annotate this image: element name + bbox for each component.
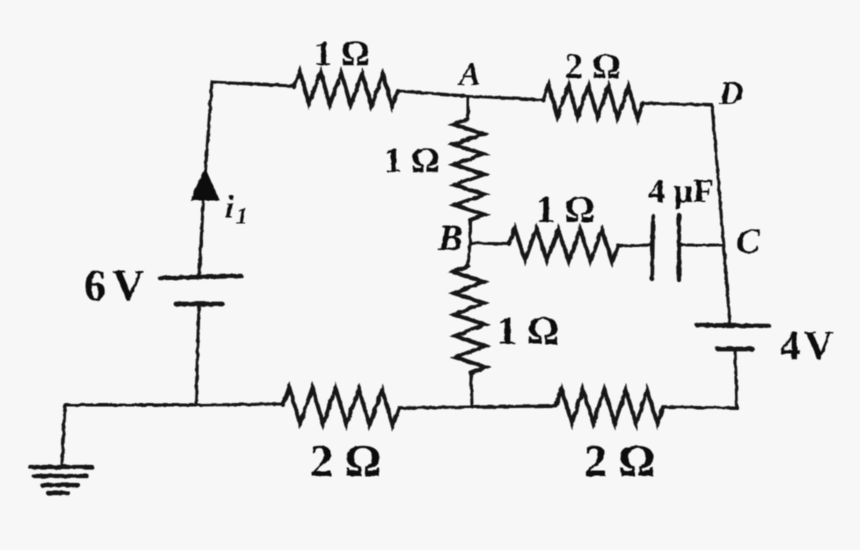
svg-text:i: i bbox=[225, 190, 235, 226]
resistor 1 ohm (vertical, B to bottom) bbox=[453, 266, 486, 373]
svg-text:C: C bbox=[736, 221, 761, 261]
wire node A down to vertical 1 ohm resistor bbox=[466, 96, 469, 119]
svg-text:1 Ω: 1 Ω bbox=[384, 140, 440, 180]
svg-text:6 V: 6 V bbox=[84, 261, 144, 310]
capacitor 4 uF bbox=[652, 216, 653, 279]
svg-text:2 Ω: 2 Ω bbox=[584, 435, 655, 486]
resistor 2 ohm (top-right) bbox=[543, 84, 643, 119]
wire 4V battery negative plate down to bottom-right corner bbox=[735, 349, 737, 408]
resistor 1 ohm (horizontal, B to capacitor) bbox=[509, 228, 618, 262]
wire 2 ohm resistor to corner D bbox=[643, 103, 712, 105]
wire node B to horizontal 1 ohm resistor bbox=[470, 243, 509, 244]
battery 4 V (right side) bbox=[697, 325, 769, 326]
resistor 1 ohm (vertical, A to B) bbox=[453, 119, 485, 220]
resistor 2 ohm (bottom-right) bbox=[556, 389, 663, 424]
resistor 2 ohm (bottom-left) bbox=[283, 387, 399, 426]
wire capacitor right plate to node C bbox=[680, 243, 723, 246]
wire bottom middle (2 ohm to junction below B to 2 ohm) bbox=[399, 406, 556, 408]
svg-text:2 Ω: 2 Ω bbox=[310, 435, 381, 486]
wire 1 ohm resistor down to node B bbox=[468, 220, 471, 243]
wire node B down to lower vertical 1 ohm resistor bbox=[468, 243, 470, 266]
svg-text:2 Ω: 2 Ω bbox=[565, 46, 621, 86]
resistor 1 ohm (top-left) bbox=[294, 71, 398, 107]
current arrow i1 (pointing up) bbox=[191, 168, 219, 200]
svg-text:1 Ω: 1 Ω bbox=[536, 189, 595, 231]
ground symbol (bottom-left) bbox=[62, 405, 65, 464]
wire lower 1 ohm resistor down to bottom wire junction bbox=[471, 373, 472, 407]
wire bottom right (2 ohm to bottom-right corner) bbox=[663, 407, 737, 408]
svg-text:D: D bbox=[718, 75, 744, 112]
wire bottom horizontal left segment (ground corner to 2 ohm) bbox=[65, 404, 283, 405]
wire node C down to 4V battery positive plate bbox=[724, 248, 730, 325]
wire 1 ohm resistor to capacitor left plate bbox=[618, 245, 651, 246]
wire from 1 ohm resistor to node A and on to 2 ohm resistor bbox=[398, 91, 543, 100]
svg-text:B: B bbox=[437, 218, 463, 259]
svg-text:A: A bbox=[457, 57, 481, 93]
svg-text:4 µF: 4 µF bbox=[648, 173, 714, 210]
wire left vertical branch (top-left corner down to 6V battery) bbox=[199, 82, 212, 277]
svg-text:1: 1 bbox=[236, 204, 248, 230]
svg-text:4 V: 4 V bbox=[780, 322, 834, 368]
battery 6 V (left side) bbox=[160, 276, 241, 278]
wire top-left horizontal segment bbox=[212, 82, 294, 86]
svg-text:1 Ω: 1 Ω bbox=[497, 308, 559, 353]
svg-text:1 Ω: 1 Ω bbox=[314, 33, 370, 73]
wire 6V battery negative plate down to bottom wire junction bbox=[196, 304, 199, 405]
wire right vertical from D down to node C bbox=[712, 105, 724, 248]
